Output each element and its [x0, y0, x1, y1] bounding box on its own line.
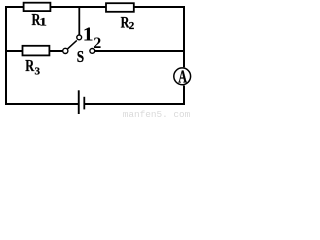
svg-text:R: R	[25, 56, 34, 75]
wire left side	[5, 6, 7, 105]
resistor R3	[22, 45, 51, 77]
wire from contact 2 to right side	[95, 50, 185, 52]
wire from R3 to switch pivot	[49, 50, 63, 52]
svg-text:3: 3	[35, 65, 41, 77]
switch contact 1	[77, 35, 82, 40]
svg-text:1: 1	[83, 24, 94, 45]
wire branch down to switch contact 1	[78, 8, 80, 35]
svg-text:manfen5. com: manfen5. com	[123, 109, 191, 119]
wire top left segment	[5, 6, 24, 8]
wire bottom left segment	[5, 103, 78, 105]
battery long plate	[78, 90, 80, 114]
wire bottom right segment	[85, 103, 185, 105]
wire top right segment	[134, 6, 185, 8]
svg-text:S: S	[77, 47, 84, 66]
ammeter A	[174, 66, 191, 86]
wire top middle segment	[51, 6, 106, 8]
svg-text:2: 2	[129, 20, 135, 32]
wire from left side to R3	[6, 50, 22, 52]
svg-text:2: 2	[93, 35, 101, 52]
switch contact 2	[90, 49, 95, 54]
wire right side lower	[183, 86, 185, 106]
resistor R2	[105, 2, 135, 32]
switch S blade	[68, 40, 77, 49]
resistor R1	[23, 2, 52, 29]
svg-text:1: 1	[39, 16, 47, 28]
svg-text:A: A	[178, 66, 187, 86]
wire right side upper	[183, 6, 185, 67]
switch S pivot contact	[63, 48, 68, 53]
battery short plate	[83, 97, 85, 110]
